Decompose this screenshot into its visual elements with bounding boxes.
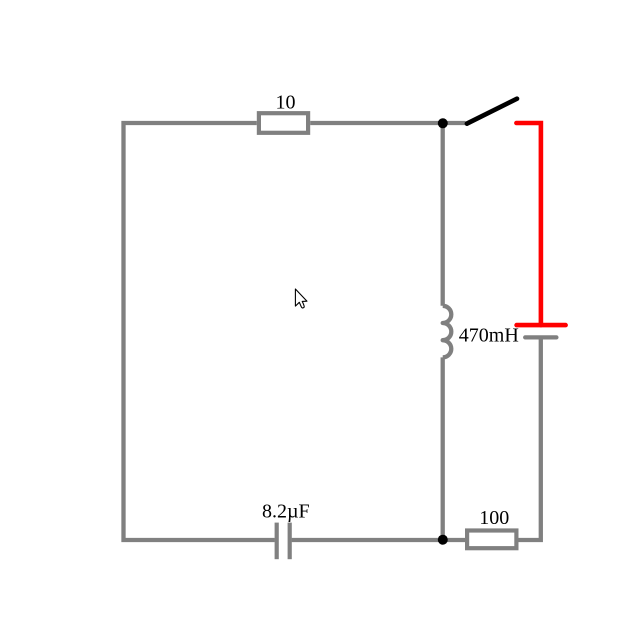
svg-text:470mH: 470mH xyxy=(459,324,519,346)
wire battery bottom to bottom-right resistor xyxy=(519,337,541,540)
svg-text:8.2µF: 8.2µF xyxy=(262,501,310,523)
svg-text:100: 100 xyxy=(479,507,509,529)
wire bottom from node to capacitor xyxy=(292,538,465,542)
resistor R2 100 ohm (bottom right) xyxy=(467,531,516,549)
wire top right horizontal xyxy=(310,121,465,125)
wire red switch contact to battery top xyxy=(516,123,541,325)
wire middle vertical upper (node to coil) xyxy=(441,123,445,306)
node junction dot top xyxy=(438,118,448,128)
resistor R1 10 ohm (top) xyxy=(259,113,308,133)
wire left loop: top-left corner, left side, bottom-left to capacitor xyxy=(124,123,275,540)
battery V1 long plate (positive, red) xyxy=(517,323,566,328)
capacitor C1 8.2uF plates xyxy=(275,523,279,560)
switch S1 lever (open) xyxy=(467,99,517,124)
svg-text:10: 10 xyxy=(276,92,296,114)
inductor L1 470mH coil xyxy=(443,306,452,358)
node junction dot bottom xyxy=(438,535,448,545)
battery V1 short plate (negative, gray) xyxy=(525,335,556,339)
wire middle vertical lower (coil to bottom node) xyxy=(441,357,445,540)
mouse cursor xyxy=(295,289,307,308)
